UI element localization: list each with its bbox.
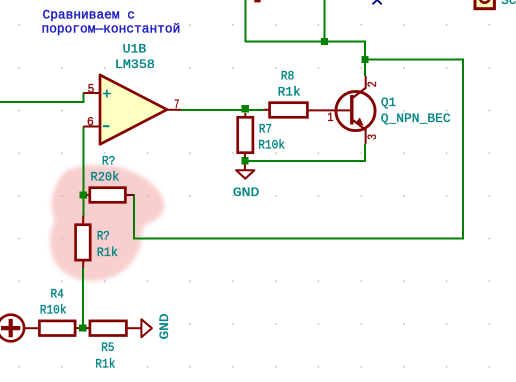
- svg-text:порогом—константой: порогом—константой: [42, 22, 181, 37]
- svg-text:R?: R?: [97, 228, 110, 243]
- svg-text:Q1: Q1: [381, 95, 396, 110]
- svg-text:R8: R8: [281, 69, 295, 84]
- svg-text:LM358: LM358: [115, 57, 155, 72]
- svg-text:5: 5: [88, 82, 95, 96]
- svg-text:1: 1: [327, 111, 333, 125]
- svg-text:R20k: R20k: [91, 170, 120, 185]
- svg-text:R4: R4: [51, 286, 64, 301]
- svg-text:GND: GND: [157, 313, 172, 339]
- svg-text:6: 6: [87, 115, 94, 129]
- svg-text:2: 2: [366, 81, 380, 87]
- svg-text:GND: GND: [233, 185, 260, 200]
- svg-text:7: 7: [174, 98, 180, 112]
- svg-text:Сравниваем с: Сравниваем с: [43, 7, 136, 22]
- svg-text:R?: R?: [102, 154, 116, 169]
- svg-text:R7: R7: [259, 121, 272, 136]
- svg-text:R10k: R10k: [40, 303, 67, 318]
- svg-text:R1k: R1k: [278, 85, 301, 100]
- svg-text:SC: SC: [501, 0, 516, 8]
- svg-text:R1k: R1k: [95, 356, 115, 371]
- svg-text:Q_NPN_BEC: Q_NPN_BEC: [381, 111, 451, 126]
- svg-text:3: 3: [366, 134, 380, 140]
- svg-text:R1k: R1k: [97, 245, 118, 260]
- svg-text:R5: R5: [101, 340, 114, 355]
- svg-text:U1B: U1B: [123, 42, 147, 57]
- svg-text:R10k: R10k: [258, 138, 285, 153]
